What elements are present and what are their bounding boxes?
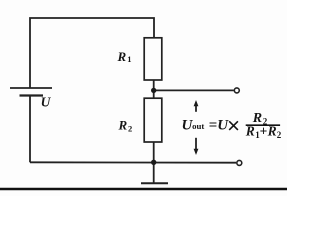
svg-text:1: 1 [127,54,131,64]
svg-text:2: 2 [128,123,132,133]
svg-text:U: U [217,117,229,133]
svg-text:2: 2 [277,130,282,140]
svg-text:=: = [209,117,218,133]
svg-text:U: U [41,95,52,110]
svg-text:R: R [118,117,128,132]
svg-text:R: R [117,49,127,64]
svg-text:out: out [192,121,204,131]
